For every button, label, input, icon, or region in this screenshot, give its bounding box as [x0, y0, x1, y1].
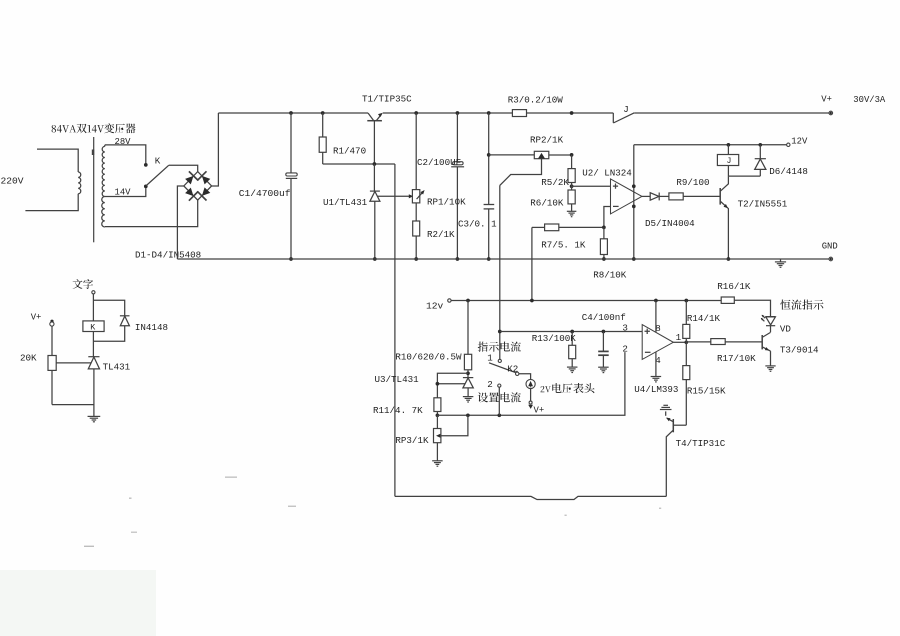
wire feedback vertical long: [394, 164, 396, 496]
switch K blade: [146, 165, 169, 185]
svg-text:30V/3A: 30V/3A: [853, 95, 886, 105]
wire relay bottom: [727, 166, 729, 177]
diode D6 4148: [759, 145, 761, 159]
wire primary bottom: [25, 194, 78, 211]
junction R14 top: [684, 299, 688, 303]
junction U4 pin8 12v: [654, 299, 658, 303]
svg-text:C3/0. 1: C3/0. 1: [458, 219, 497, 230]
potentiometer RP3: [436, 415, 438, 428]
junction U1 top: [373, 162, 377, 166]
capacitor C4 100nf: [602, 332, 604, 352]
transistor T2 IN5551: [719, 188, 721, 205]
resistor R13: [571, 332, 573, 346]
svg-text:VD: VD: [780, 324, 792, 335]
transistor T1 TIP35C: [368, 113, 373, 120]
terminal wenzi: [92, 291, 95, 294]
junction C3 rail: [487, 111, 491, 115]
svg-text:V+: V+: [31, 313, 42, 323]
junction U1 bottom rail: [373, 257, 377, 261]
wire 14V tap: [105, 188, 146, 196]
wire bottom long: [395, 496, 666, 499]
junction RP3 wiper line: [466, 413, 470, 417]
resistor R11: [434, 398, 441, 412]
junction U4 out: [684, 340, 688, 344]
diode IN4148: [120, 315, 130, 317]
terminal 12v left: [448, 299, 451, 302]
svg-text:RP2/1K: RP2/1K: [530, 135, 564, 146]
wire RP2 left: [489, 154, 535, 156]
ground bottom rail: [780, 259, 782, 262]
resistor R1: [322, 113, 324, 137]
svg-text:U4/LM393: U4/LM393: [634, 384, 678, 395]
wire sense line: [437, 352, 625, 415]
svg-text:14V: 14V: [115, 188, 132, 198]
svg-text:T1/TIP35C: T1/TIP35C: [362, 94, 412, 105]
node switch contact 28V: [144, 163, 148, 167]
resistor R16: [721, 297, 734, 303]
wire U1 ref to RP1 wiper: [378, 195, 410, 197]
svg-text:R14/1K: R14/1K: [687, 313, 721, 324]
wire R1 to RP1 node: [323, 163, 395, 165]
svg-text:T3/9014: T3/9014: [780, 345, 819, 356]
wire U4 output: [673, 341, 686, 343]
junction R7line 12v: [530, 299, 534, 303]
junction R7 R8: [602, 226, 606, 230]
svg-text:RP3/1K: RP3/1K: [395, 435, 429, 446]
wire relay K branch: [92, 294, 94, 321]
junction RP2 R5: [570, 153, 574, 157]
wire U4 pin4 ground: [655, 352, 657, 377]
svg-text:J: J: [727, 157, 732, 166]
wire rail R3 to J: [527, 112, 614, 114]
junction R5 R6: [570, 184, 574, 188]
wire D5 to R9: [659, 195, 669, 197]
resistor R7: [532, 226, 545, 228]
inductor primary winding: [78, 172, 81, 194]
svg-text:R8/10K: R8/10K: [593, 270, 627, 281]
led VD: [766, 316, 776, 318]
junction RP2wiper line3: [498, 330, 502, 334]
meter 2V voltmeter: [526, 379, 535, 388]
svg-text:U2/ LN324: U2/ LN324: [582, 168, 632, 179]
label shezhi: [478, 392, 521, 402]
svg-text:2: 2: [622, 344, 628, 355]
potentiometer RP1: [415, 113, 417, 190]
transistor T3 9014: [761, 335, 763, 349]
wire switch to bridge: [169, 165, 198, 171]
resistor R10: [467, 301, 469, 355]
label zhishi: [478, 342, 521, 352]
junction relay top: [727, 143, 731, 147]
svg-text:R16/1K: R16/1K: [717, 281, 751, 292]
wire K2 to meter: [519, 374, 531, 380]
wire primary top: [37, 149, 78, 172]
svg-text:R9/100: R9/100: [676, 177, 709, 188]
wire TL431 ref to pot: [55, 362, 91, 364]
junction R8 rail: [602, 257, 606, 261]
terminal V+ output: [829, 111, 833, 115]
wire VD to T3: [770, 326, 772, 333]
terminal GND: [829, 257, 833, 261]
resistor R15: [685, 342, 687, 365]
wire contact2 down: [498, 387, 500, 415]
wire top rail left: [218, 112, 368, 114]
node switch contact 14V: [144, 185, 148, 189]
svg-text:R1/470: R1/470: [333, 146, 366, 157]
resistor R14: [685, 338, 687, 342]
transformer core: [93, 137, 95, 242]
svg-text:R6/10K: R6/10K: [530, 198, 564, 209]
svg-text:C4/100nf: C4/100nf: [582, 312, 626, 323]
wire bridge bottom to transformer: [105, 200, 198, 227]
capacitor C1 4700uf: [290, 113, 292, 173]
junction RP1 rail: [414, 111, 418, 115]
ground under R6: [571, 204, 573, 211]
relay coil J: [727, 145, 729, 155]
ground RP3: [436, 443, 438, 461]
svg-text:3: 3: [622, 323, 628, 334]
wire U2 output: [642, 195, 650, 197]
svg-text:R7/5. 1K: R7/5. 1K: [541, 240, 586, 251]
label wenzi: [73, 279, 93, 289]
svg-text:R2/1K: R2/1K: [427, 229, 455, 240]
svg-text:U1/TL431: U1/TL431: [323, 197, 368, 208]
svg-text:1: 1: [487, 353, 493, 364]
junction C2 bottom rail: [456, 257, 460, 261]
ground T3: [770, 351, 772, 366]
junction C3 bottom rail: [487, 257, 491, 261]
diode D5 IN4004: [650, 193, 659, 201]
arrow meter V+: [528, 405, 533, 409]
junction feedback upper: [632, 184, 636, 188]
junction C4 top: [602, 330, 606, 334]
wire 12v line: [451, 300, 721, 302]
regulator TL431 left: [88, 356, 99, 358]
resistor R9: [669, 193, 683, 200]
wire U4 pin8: [655, 301, 657, 333]
ground TL431 left: [88, 415, 101, 417]
svg-text:R13/100K: R13/100K: [532, 333, 577, 344]
wire T1 base down: [373, 121, 375, 164]
svg-text:C2/100UF: C2/100UF: [417, 157, 461, 168]
junction C3 RP2 tap: [487, 153, 491, 157]
junction R13 top: [570, 330, 574, 334]
transistor T4 TIP31C: [672, 419, 674, 432]
ground T4 inverted: [665, 411, 667, 415]
wire pot bottom: [52, 404, 94, 406]
regulator U3 TL431: [463, 377, 473, 379]
terminal meter V+: [529, 401, 532, 404]
wire bridge plus output: [212, 113, 219, 186]
wire 28V tap: [105, 145, 146, 163]
junction C1 top: [289, 111, 293, 115]
diode D3 lower-left: [185, 188, 193, 197]
ground U3: [463, 396, 474, 398]
svg-text:D6/4148: D6/4148: [769, 166, 808, 177]
terminal K2 contact 2: [498, 384, 501, 387]
svg-text:V+: V+: [821, 95, 832, 105]
inductor secondary winding upper: [102, 146, 105, 196]
svg-text:J: J: [623, 104, 629, 115]
speck artifacts: [84, 477, 661, 548]
potentiometer RP2: [534, 151, 549, 158]
resistor R8: [603, 227, 605, 238]
wire R9 to T2 base: [683, 195, 720, 197]
wire plus-input line: [500, 331, 642, 333]
junction R2 bottom rail: [414, 257, 418, 261]
terminal V+ left: [50, 320, 53, 323]
resistor R6: [571, 183, 573, 191]
switch K2 blade: [489, 363, 516, 373]
svg-text:GND: GND: [822, 242, 838, 252]
svg-text:K: K: [155, 156, 161, 167]
junction C1 bottom rail: [289, 257, 293, 261]
svg-text:D5/IN4004: D5/IN4004: [645, 218, 695, 229]
svg-text:2: 2: [487, 379, 493, 390]
resistor R3: [512, 110, 526, 117]
svg-text:T2/IN5551: T2/IN5551: [738, 199, 788, 210]
diode D4 lower-right: [202, 187, 210, 196]
svg-text:C1/4700uf: C1/4700uf: [239, 188, 291, 199]
diode D2 upper-right: [202, 176, 210, 185]
svg-text:R5/2K: R5/2K: [541, 177, 569, 188]
wire U2 minus input: [604, 207, 611, 228]
diode D1 upper-left: [185, 176, 193, 185]
inductor secondary winding lower: [102, 197, 105, 228]
junction T2 emitter rail: [727, 257, 731, 261]
junction D6 top: [758, 143, 762, 147]
wire contact1 vertical: [499, 332, 501, 360]
junction R11 bottom: [436, 413, 440, 417]
svg-text:R3/0.2/10W: R3/0.2/10W: [508, 95, 564, 106]
label hengliu: [780, 300, 823, 310]
svg-text:R15/15K: R15/15K: [687, 386, 726, 397]
svg-text:R10/620/0.5W: R10/620/0.5W: [395, 352, 462, 363]
svg-text:28V: 28V: [115, 137, 132, 147]
op-amp U4 LM393: [642, 325, 673, 360]
terminal K2 common: [516, 372, 519, 375]
wire R15 to T4 base: [673, 424, 686, 426]
svg-text:TL431: TL431: [103, 362, 131, 373]
terminal 12V right: [787, 143, 790, 146]
junction feedback rail: [632, 257, 636, 261]
wire RP2 right: [549, 154, 572, 156]
op-amp U2 LN324: [611, 179, 642, 214]
ground C4: [598, 366, 609, 368]
svg-text:12v: 12v: [426, 301, 444, 312]
svg-text:RP1/10K: RP1/10K: [427, 197, 466, 208]
junction C2 rail: [456, 111, 460, 115]
resistor R5: [571, 155, 573, 169]
relay coil K: [83, 321, 104, 332]
svg-text:IN4148: IN4148: [135, 322, 168, 333]
wire U3 ref: [437, 373, 468, 398]
junction feedback lower: [632, 205, 636, 209]
junction R1 top: [321, 111, 325, 115]
svg-text:220V: 220V: [1, 176, 24, 187]
wire bridge minus output: [177, 186, 183, 259]
svg-text:U3/TL431: U3/TL431: [375, 374, 420, 385]
regulator U1 TL431: [373, 164, 375, 191]
bridge rectifier D1-D4 diamond: [184, 172, 212, 201]
wire feedback crossing U2: [633, 145, 635, 259]
switch J: [612, 113, 614, 123]
wire 12V line upper: [634, 144, 787, 146]
terminal K2 contact 1: [498, 359, 501, 362]
svg-text:R11/4. 7K: R11/4. 7K: [373, 405, 423, 416]
junction R10 top: [466, 299, 470, 303]
wire R7 left vertical: [531, 227, 533, 300]
wire top rail mid: [383, 112, 513, 114]
wire R16 to VD: [734, 300, 770, 316]
potentiometer 20K: [51, 326, 53, 355]
wire U2 plus input: [572, 185, 611, 187]
svg-text:12V: 12V: [791, 137, 808, 147]
junction K2 contact2 line: [497, 413, 501, 417]
svg-text:20K: 20K: [20, 353, 37, 364]
pale rect artifact: [0, 570, 156, 636]
junction ref R11: [436, 382, 440, 386]
svg-text:R17/10K: R17/10K: [717, 353, 756, 364]
ground R13: [567, 366, 578, 368]
capacitor C3 0.1: [488, 113, 490, 204]
label transformer 84VA: [52, 123, 136, 133]
label biaotou: [541, 383, 595, 393]
wire RP2 wiper vertical: [499, 185, 501, 331]
wire top rail right: [634, 112, 829, 114]
svg-text:V+: V+: [534, 406, 545, 416]
wire K bottom: [92, 332, 94, 357]
resistor R2: [415, 203, 417, 221]
junction R10 U3: [466, 371, 470, 375]
wire meter bottom: [530, 389, 532, 402]
resistor R17: [686, 341, 711, 343]
svg-text:T4/TIP31C: T4/TIP31C: [676, 438, 726, 449]
wire bottom rail GND: [177, 258, 829, 260]
junction R5 rail: [570, 111, 574, 115]
svg-text:1: 1: [676, 332, 682, 343]
capacitor C2 100UF: [456, 113, 458, 162]
